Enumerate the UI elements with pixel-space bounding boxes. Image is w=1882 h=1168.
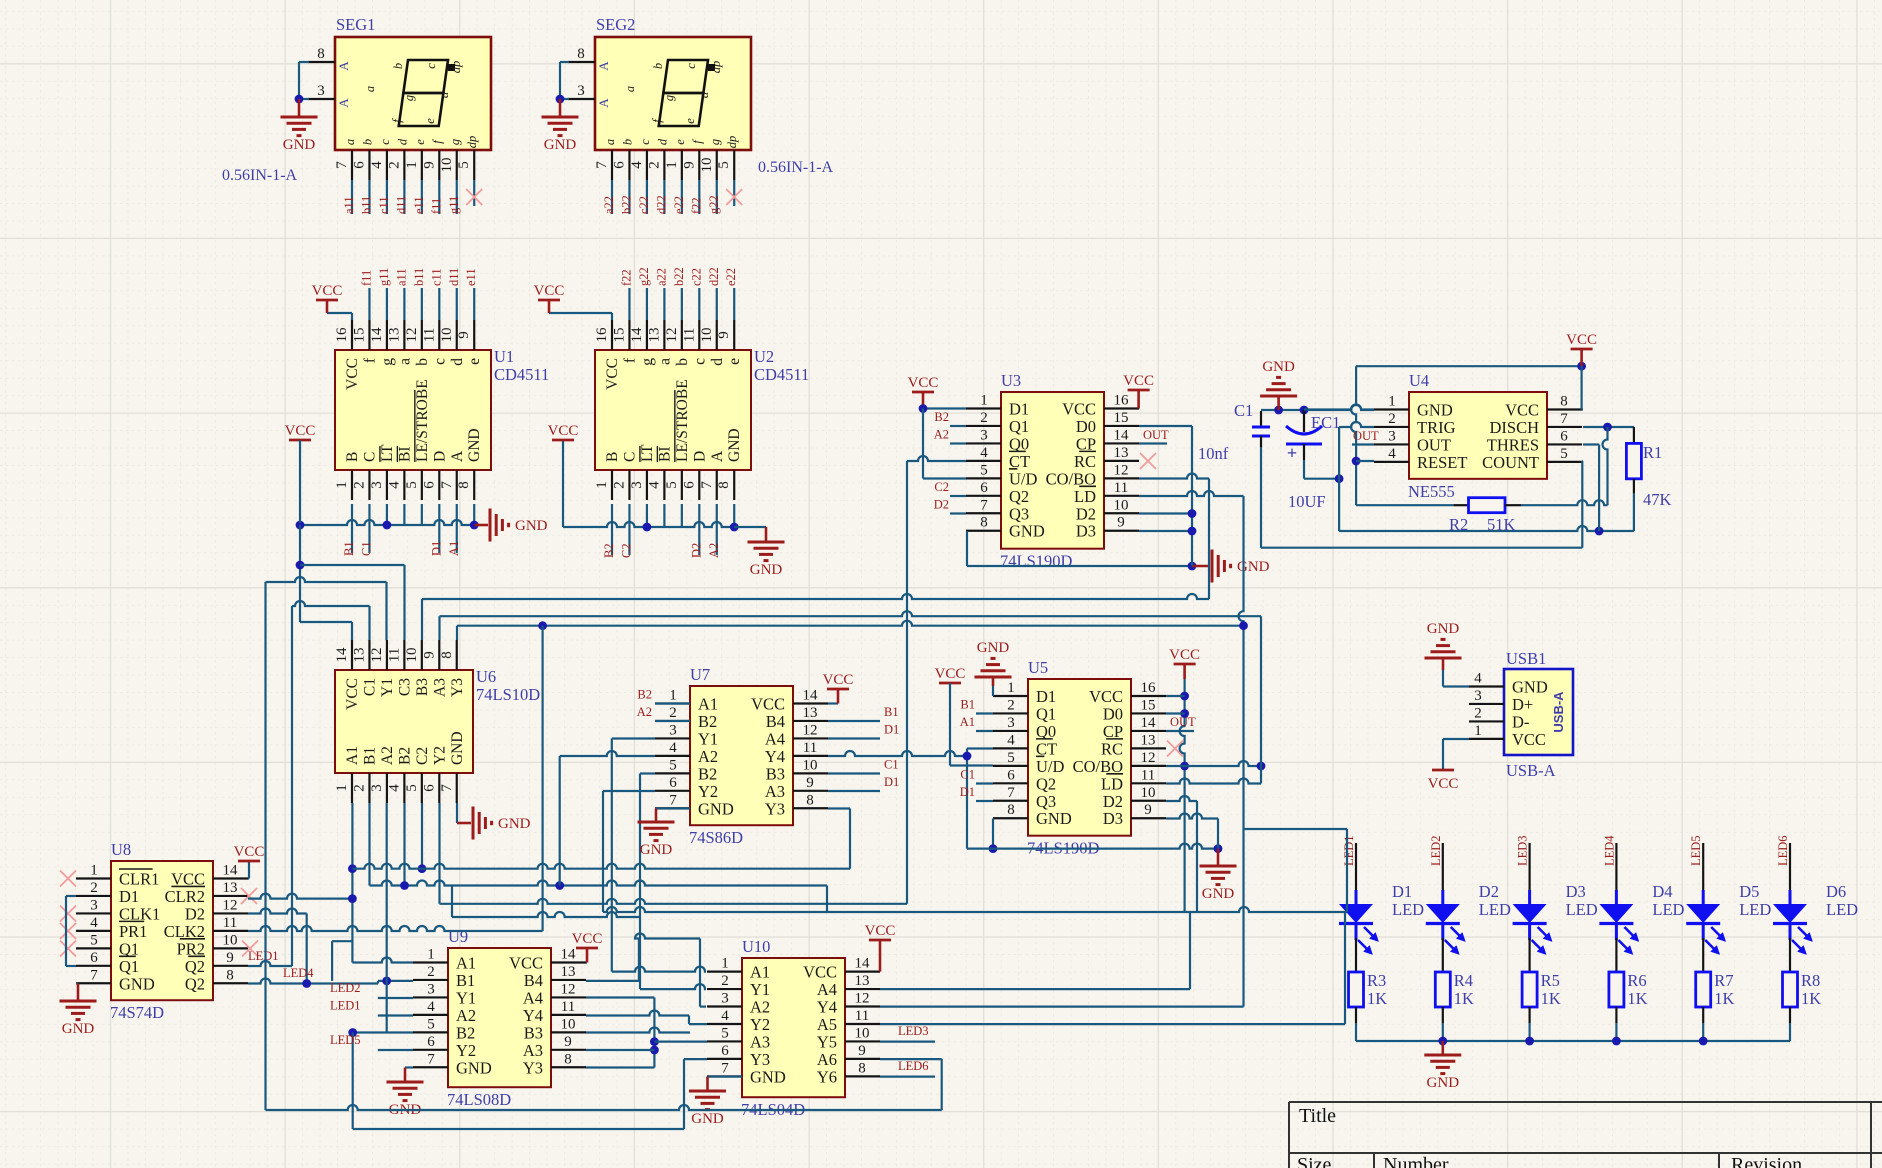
svg-text:D2: D2 — [1076, 504, 1096, 523]
svg-text:U/D: U/D — [1009, 469, 1038, 488]
pin 3 U2 bottom — [646, 470, 648, 500]
wire U6 pin8 row to U3 pin11 — [457, 621, 1244, 626]
pin 13 U8 — [213, 895, 248, 897]
pin 13 U7 — [793, 720, 828, 722]
junction dots U2 bus — [643, 523, 652, 532]
svg-text:D: D — [431, 451, 448, 462]
svg-text:NE555: NE555 — [1408, 482, 1455, 501]
svg-text:EC1: EC1 — [1311, 413, 1340, 432]
svg-text:Title: Title — [1299, 1105, 1336, 1127]
svg-text:f11: f11 — [359, 270, 373, 286]
svg-text:LED4: LED4 — [1602, 835, 1616, 866]
svg-text:B3: B3 — [414, 678, 431, 696]
svg-text:c: c — [638, 139, 652, 145]
svg-text:OUT: OUT — [1170, 715, 1196, 729]
wire U6 pin13 row net LED1 — [292, 601, 370, 606]
wire U6 pin5 down — [421, 803, 423, 869]
svg-text:8: 8 — [980, 515, 988, 531]
svg-text:13: 13 — [561, 964, 576, 980]
svg-text:VCC: VCC — [234, 844, 265, 860]
svg-text:Y2: Y2 — [750, 1015, 770, 1034]
pin 15 U1 top — [368, 320, 370, 350]
wire LED4 row to U9 pin2 — [378, 980, 413, 982]
pin 9 U10 — [845, 1058, 880, 1060]
svg-text:a: a — [603, 139, 617, 145]
pin 6 U5 — [993, 782, 1028, 784]
net label A2 on U3 pin3 — [950, 442, 966, 444]
svg-text:VCC: VCC — [1566, 332, 1597, 348]
svg-text:2: 2 — [351, 784, 367, 792]
svg-text:2: 2 — [90, 880, 98, 896]
net label B1 on U7 pin13 — [828, 720, 880, 722]
svg-text:VCC: VCC — [604, 358, 621, 390]
svg-text:c: c — [691, 358, 708, 365]
no-connect X U3 pin13 RC — [1140, 453, 1156, 469]
svg-text:16: 16 — [1114, 393, 1130, 409]
svg-text:3: 3 — [577, 83, 585, 99]
IC U2 CD4511 BCD to 7-seg decoder — [595, 350, 751, 470]
resistor R2 51K — [1356, 504, 1454, 506]
wire LED D1 to resistor R3 — [1355, 938, 1357, 972]
svg-text:8: 8 — [1007, 802, 1015, 818]
svg-text:a: a — [623, 86, 637, 92]
svg-text:0.56IN-1-A: 0.56IN-1-A — [758, 159, 834, 176]
svg-text:2: 2 — [1007, 697, 1015, 713]
svg-text:15: 15 — [1114, 410, 1129, 426]
svg-text:14: 14 — [629, 327, 645, 343]
pin 1 U8 — [76, 877, 111, 879]
svg-text:74S86D: 74S86D — [689, 828, 743, 847]
wire U3 pin8 GND down — [966, 531, 968, 566]
svg-text:1: 1 — [334, 784, 350, 792]
wire net LED6 top — [1789, 843, 1791, 865]
ground GND above C1 row — [1277, 396, 1280, 410]
pin 3 U1 bottom — [386, 470, 388, 500]
svg-text:12: 12 — [404, 328, 420, 343]
svg-text:e: e — [466, 358, 483, 365]
svg-text:c: c — [378, 139, 392, 145]
svg-text:CO/BO: CO/BO — [1046, 469, 1097, 488]
svg-text:B2: B2 — [456, 1023, 475, 1042]
wire LED D3 to resistor R5 — [1528, 938, 1530, 972]
wire U3 pin10 D2 right — [1139, 512, 1192, 514]
svg-text:GND: GND — [1202, 886, 1235, 902]
wire U5 pin4 CT left and down — [967, 747, 993, 749]
pin 1 U10 — [707, 970, 742, 972]
svg-text:14: 14 — [855, 956, 871, 972]
svg-text:3: 3 — [90, 897, 98, 913]
LED D5 — [1702, 865, 1704, 904]
svg-text:3: 3 — [1007, 715, 1015, 731]
junction dot GND row — [1188, 562, 1197, 571]
svg-text:e11: e11 — [412, 196, 426, 214]
ground GND U7 — [638, 821, 675, 824]
svg-text:9: 9 — [421, 651, 437, 659]
7-segment display SEG2 — [595, 37, 751, 150]
wire — [663, 180, 665, 214]
pin 1 U4 — [1374, 408, 1409, 410]
svg-text:2: 2 — [1388, 411, 1396, 427]
pin 4 USB1 GND — [1469, 685, 1504, 687]
svg-text:Size: Size — [1297, 1154, 1332, 1168]
pin 1 U3 — [966, 407, 1001, 409]
pin 5 U10 — [707, 1040, 742, 1042]
svg-text:VCC: VCC — [1123, 373, 1154, 389]
svg-text:3: 3 — [721, 991, 729, 1007]
svg-text:d: d — [655, 138, 669, 145]
svg-text:3: 3 — [669, 722, 677, 738]
wire U6 pin6 down — [438, 803, 440, 904]
svg-text:COUNT: COUNT — [1482, 453, 1539, 472]
wire LED ground rail — [1356, 1040, 1790, 1042]
pin 3 U8 — [76, 912, 111, 914]
svg-text:C: C — [361, 452, 378, 462]
wire — [386, 180, 388, 214]
svg-text:9: 9 — [716, 331, 732, 339]
wire U5 GND row — [967, 844, 1218, 849]
svg-text:VCC: VCC — [344, 358, 361, 390]
resistor R3 1K — [1349, 972, 1364, 1007]
resistor R8 1K — [1783, 972, 1798, 1007]
svg-text:2: 2 — [611, 481, 627, 489]
ground GND below U5 — [1217, 849, 1220, 866]
wire U3 GND row — [967, 565, 1192, 567]
svg-text:LED: LED — [1566, 900, 1598, 919]
wire resistor R5 to ground rail — [1528, 1007, 1530, 1023]
wire U1 bottom bus — [300, 520, 475, 525]
wire U7 pin11 Y4 to U5 pin4 vertical — [828, 751, 967, 756]
ground GND seg2 — [559, 99, 562, 117]
power VCC U4 — [1577, 362, 1586, 371]
svg-text:74S74D: 74S74D — [110, 1003, 164, 1022]
svg-text:6: 6 — [90, 950, 98, 966]
svg-text:3: 3 — [369, 784, 385, 792]
svg-text:2: 2 — [1474, 705, 1482, 721]
wire U6 pin4 down — [403, 803, 405, 886]
svg-text:a: a — [363, 86, 377, 92]
wire U7 pin6 Y2 down to row 912 — [603, 790, 655, 792]
wire U10 pin9 A6 to rail A — [880, 1058, 942, 1060]
wire U2 pin 10 net d22 — [716, 288, 718, 320]
svg-text:VCC: VCC — [935, 666, 966, 682]
svg-text:Q1: Q1 — [119, 939, 139, 958]
svg-text:f: f — [621, 357, 638, 363]
svg-text:f22: f22 — [689, 197, 703, 214]
pin 14 U9 — [551, 961, 586, 963]
wire net LED2 top — [1442, 843, 1444, 865]
svg-text:A2: A2 — [637, 705, 652, 719]
svg-text:4: 4 — [646, 481, 662, 489]
net label A2 on U7 pin2 — [655, 720, 690, 722]
svg-text:e: e — [423, 118, 437, 124]
wire U9 pin13 B4 up and over to U10 pin3 — [586, 980, 639, 982]
pin 6 U2 bottom — [698, 470, 700, 500]
svg-text:D0: D0 — [1103, 704, 1123, 723]
wire — [628, 180, 630, 214]
resistor R6 1K — [1609, 972, 1624, 1007]
svg-text:RC: RC — [1101, 739, 1123, 758]
wire to U6 pin14 — [300, 621, 352, 623]
svg-text:A4: A4 — [765, 729, 785, 748]
svg-text:c: c — [684, 63, 698, 69]
svg-text:8: 8 — [317, 46, 325, 62]
svg-text:10: 10 — [803, 757, 818, 773]
svg-text:7: 7 — [439, 481, 455, 489]
no-connect X U8 pin13 — [241, 888, 257, 904]
svg-text:CD4511: CD4511 — [754, 365, 809, 384]
svg-text:16: 16 — [334, 327, 350, 343]
wire U8 pin8 Q2 net LED4 row — [248, 979, 378, 984]
pin 9 U2 top — [733, 320, 735, 350]
wire resistor R4 to ground rail — [1442, 1007, 1444, 1023]
svg-text:A1: A1 — [750, 963, 770, 982]
wire U2 pin 12 net b22 — [681, 288, 683, 320]
svg-text:dp: dp — [449, 61, 463, 74]
svg-text:6: 6 — [421, 481, 437, 489]
pin 15 U5 — [1131, 712, 1166, 714]
svg-text:f11: f11 — [429, 198, 443, 214]
pin 12 U3 — [1104, 477, 1139, 479]
svg-text:c: c — [431, 358, 448, 365]
svg-text:A: A — [449, 450, 466, 462]
pin 7 U2 bottom — [716, 470, 718, 500]
wire VCC vertical right of U5 down to row 912 — [1180, 679, 1185, 912]
wire U1 pin 15 net f11 — [368, 288, 370, 320]
svg-text:GND: GND — [544, 137, 577, 153]
wire U5 pin1 from GND — [992, 686, 994, 696]
svg-text:12: 12 — [561, 981, 576, 997]
IC U4 NE555 timer — [1409, 392, 1547, 479]
wire mesh row 885 — [370, 881, 828, 886]
pin 2 U9 — [413, 979, 448, 981]
svg-text:6: 6 — [1007, 767, 1015, 783]
svg-text:9: 9 — [858, 1043, 866, 1059]
pin 9 U8 — [213, 965, 248, 967]
power VCC U3 pin16 — [1128, 389, 1150, 392]
svg-text:1: 1 — [427, 947, 435, 963]
pin 9 U5 — [1131, 817, 1166, 819]
svg-text:D-: D- — [1512, 712, 1529, 731]
IC U8 74S74D dual D flip-flop — [111, 861, 213, 1000]
wire U10 pin11 A5 row — [880, 1023, 1345, 1025]
power VCC U9 pin14 — [586, 961, 587, 963]
svg-text:BI: BI — [656, 447, 673, 463]
svg-text:7: 7 — [669, 792, 677, 808]
svg-text:51K: 51K — [1487, 515, 1516, 534]
svg-text:GND: GND — [1262, 359, 1295, 375]
pin 11 U9 — [551, 1014, 586, 1016]
wire U5 pin12 CO/BO — [1166, 761, 1261, 766]
svg-text:10: 10 — [223, 932, 238, 948]
svg-text:U8: U8 — [111, 840, 131, 859]
svg-text:9: 9 — [1117, 515, 1125, 531]
power VCC U2 bus — [562, 439, 565, 442]
svg-text:GND: GND — [1417, 401, 1453, 420]
wire U9 pin11 Y4 row — [586, 1011, 689, 1016]
svg-text:C3: C3 — [396, 678, 413, 696]
pin 16 U1 top — [351, 320, 353, 350]
pin 14 U3 — [1104, 442, 1139, 444]
wire U1 pin 13 net a11 — [403, 288, 405, 320]
svg-text:1K: 1K — [1367, 989, 1387, 1008]
svg-text:14: 14 — [803, 688, 819, 704]
net label D1 on U5 pin7 — [976, 800, 993, 802]
wire bottom rail A — [266, 1105, 942, 1110]
svg-text:8: 8 — [716, 481, 732, 489]
svg-text:9: 9 — [1144, 802, 1152, 818]
net label D1 on U7 pin12 — [828, 737, 880, 739]
svg-text:Y6: Y6 — [817, 1067, 837, 1086]
svg-text:1: 1 — [664, 161, 680, 169]
svg-text:a11: a11 — [394, 268, 408, 286]
pin 4 U10 — [707, 1023, 742, 1025]
svg-text:d: d — [697, 91, 711, 98]
svg-text:7: 7 — [427, 1051, 435, 1067]
svg-text:LED5: LED5 — [330, 1033, 361, 1047]
net label OUT on U4 pin3 — [1352, 443, 1374, 445]
pin 9 segment f — [698, 150, 700, 180]
wire link row885 to row917 — [451, 886, 453, 918]
svg-text:GND: GND — [698, 799, 734, 818]
svg-text:11: 11 — [386, 648, 402, 662]
wire U3 pin15 D0 right — [1139, 425, 1192, 427]
svg-text:R3: R3 — [1367, 971, 1386, 990]
svg-text:LED1: LED1 — [248, 949, 279, 963]
svg-text:B3: B3 — [766, 764, 785, 783]
svg-text:VCC: VCC — [1428, 776, 1459, 792]
wire U4 pin4 RESET — [1356, 460, 1374, 462]
pin 5 U1 bottom — [421, 470, 423, 500]
svg-text:9: 9 — [421, 161, 437, 169]
pin 9 U3 — [1104, 530, 1139, 532]
pin 3 U6 bottom — [386, 773, 388, 803]
junction dots U1 bus — [383, 521, 392, 530]
svg-text:D1: D1 — [429, 541, 443, 556]
wire SEG2 pins to ground — [560, 61, 569, 63]
svg-text:g11: g11 — [377, 268, 391, 286]
svg-text:16: 16 — [1141, 680, 1157, 696]
svg-text:1: 1 — [721, 956, 729, 972]
pin 9 segment f — [438, 150, 440, 180]
svg-text:1K: 1K — [1801, 989, 1821, 1008]
svg-text:GND: GND — [283, 137, 316, 153]
wire DISCH branch down to R2 row — [1603, 427, 1608, 505]
wire LED D6 to resistor R8 — [1789, 938, 1791, 972]
wire U5 pin9 D3 down to GND row — [1166, 814, 1218, 819]
wire U5 pin10 D2 down to row 912 — [1166, 796, 1197, 801]
svg-text:GND: GND — [691, 1111, 724, 1127]
svg-text:D1: D1 — [884, 723, 899, 737]
IC U10 74LS04D hex inverter — [742, 958, 845, 1097]
svg-text:VCC: VCC — [509, 954, 543, 973]
svg-text:3: 3 — [1388, 428, 1396, 444]
svg-text:A2: A2 — [379, 746, 396, 765]
wire U2 pin 13 net a22 — [663, 288, 665, 320]
wire U3 pin9 D3 right — [1139, 530, 1192, 532]
svg-text:GND: GND — [1036, 809, 1072, 828]
svg-text:LED: LED — [1739, 900, 1771, 919]
ground GND U10 — [689, 1090, 726, 1093]
svg-text:4: 4 — [980, 445, 988, 461]
svg-text:1: 1 — [90, 863, 98, 879]
wire U1 pin 14 net g11 — [386, 288, 388, 320]
power VCC U1 — [326, 300, 329, 313]
svg-text:VCC: VCC — [285, 423, 316, 439]
svg-text:4: 4 — [427, 999, 435, 1015]
wire resistor R6 to ground rail — [1615, 1007, 1617, 1023]
svg-text:R2: R2 — [1449, 515, 1468, 534]
svg-text:dp: dp — [725, 136, 739, 149]
wire — [351, 180, 353, 214]
svg-text:LED: LED — [1652, 900, 1684, 919]
pin 2 segment d — [403, 150, 405, 180]
svg-text:15: 15 — [611, 328, 627, 343]
junction dots top row — [1274, 406, 1283, 415]
svg-text:TRIG: TRIG — [1417, 418, 1456, 437]
wire mesh row 912 — [603, 907, 1347, 912]
resistor R7 1K — [1696, 972, 1711, 1007]
svg-text:D3: D3 — [1076, 522, 1096, 541]
svg-text:A: A — [336, 61, 351, 71]
wire dp no-connect — [473, 180, 475, 206]
svg-text:U10: U10 — [742, 937, 770, 956]
pin 2 U5 — [993, 712, 1028, 714]
wire U9 pin8 Y3 row — [586, 1066, 654, 1068]
wire vertical left V265 — [264, 582, 266, 1110]
svg-text:GND: GND — [466, 428, 483, 462]
wire VCC to U3 pin1 — [923, 407, 966, 409]
svg-text:16: 16 — [594, 327, 610, 343]
pin 7 U4 — [1547, 426, 1582, 428]
wire VCC rail down — [299, 440, 301, 523]
pin 7 U5 — [993, 800, 1028, 802]
svg-text:D5: D5 — [1739, 882, 1759, 901]
pin 3 U5 — [993, 730, 1028, 732]
wire mesh row 903 to U3 pin4 vertical — [440, 899, 908, 904]
svg-text:A5: A5 — [817, 1015, 837, 1034]
wire U3 pin11 LD right — [1139, 491, 1244, 496]
svg-text:A2: A2 — [456, 1006, 476, 1025]
wire U2 bus left to VCC — [562, 440, 564, 527]
svg-text:10: 10 — [1141, 785, 1156, 801]
svg-text:7: 7 — [721, 1060, 729, 1076]
pin 6 segment b — [628, 150, 630, 180]
pin 6 U9 — [413, 1049, 448, 1051]
wire branch to U6 pin11 — [300, 564, 405, 566]
svg-text:U9: U9 — [448, 927, 468, 946]
ground GND seg1 — [298, 99, 301, 117]
pin 10 segment g — [716, 150, 718, 180]
no-connect X U5 pin13 RC — [1167, 741, 1183, 757]
pin 8 U4 — [1547, 408, 1582, 410]
pin 1 U9 — [413, 961, 448, 963]
svg-text:CLR2: CLR2 — [165, 887, 205, 906]
wire U9 pin2 B1 corner up — [331, 941, 333, 981]
svg-text:VCC: VCC — [1169, 647, 1200, 663]
power VCC U2 — [548, 300, 551, 313]
svg-text:9: 9 — [806, 775, 814, 791]
svg-text:Q0: Q0 — [1009, 434, 1029, 453]
wire vertical VCC row to R2 — [1351, 366, 1356, 505]
pin 8 U9 — [551, 1066, 586, 1068]
svg-text:U3: U3 — [1001, 371, 1021, 390]
svg-text:D: D — [691, 451, 708, 462]
svg-text:4: 4 — [369, 161, 385, 169]
wire U4 pin6 THRES down — [1583, 443, 1599, 445]
svg-text:4: 4 — [1474, 671, 1482, 687]
svg-text:13: 13 — [803, 705, 818, 721]
pin 5 U4 — [1547, 461, 1582, 463]
